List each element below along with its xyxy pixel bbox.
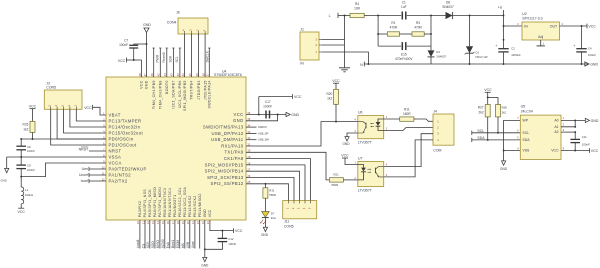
U2 pin names	[524, 25, 558, 40]
svg-text:1k2: 1k2	[23, 127, 28, 131]
svg-text:1N4007: 1N4007	[436, 55, 446, 59]
wire A1	[561, 120, 575, 126]
capacitor E15	[378, 42, 431, 61]
svg-text:Reset0: Reset0	[162, 52, 166, 62]
svg-text:VBAT: VBAT	[109, 112, 121, 117]
ground GND (U5)	[500, 151, 508, 172]
svg-text:GND: GND	[291, 113, 299, 117]
resistor R28	[496, 105, 508, 133]
svg-text:C1: C1	[402, 1, 406, 5]
U7 pin numbers	[354, 161, 387, 180]
svg-text:NRST: NRST	[109, 148, 122, 153]
svg-text:PA2/TX2: PA2/TX2	[109, 178, 128, 183]
eeprom U5 body	[520, 115, 561, 159]
svg-text:I2C1_SDA/PB7: I2C1_SDA/PB7	[172, 80, 176, 108]
wire WP/VSS	[504, 120, 521, 150]
junction C7/VCC	[133, 59, 135, 61]
svg-text:A2: A2	[554, 130, 558, 134]
U2 pin numbers	[517, 22, 563, 46]
U6 transistor	[358, 122, 366, 133]
U6 pin numbers	[354, 115, 387, 133]
net N	[360, 62, 589, 67]
junction top b	[430, 15, 432, 17]
svg-text:1k2: 1k2	[327, 97, 332, 101]
svg-text:U5: U5	[521, 105, 526, 109]
svg-text:SPI2_SCK/PB13: SPI2_SCK/PB13	[207, 175, 244, 180]
svg-text:U5B: U5B	[186, 242, 190, 248]
svg-text:VSS: VSS	[522, 149, 530, 153]
capacitor C11	[570, 132, 590, 150]
svg-text:EnA: EnA	[166, 241, 170, 248]
svg-text:PD1/OSCout: PD1/OSCout	[109, 142, 137, 147]
capacitor C1	[401, 1, 445, 20]
svg-text:GND: GND	[342, 142, 350, 146]
svg-text:VCC: VCC	[118, 59, 126, 63]
MCU bottom pin names	[138, 187, 212, 218]
power VCC (R27/R28)	[484, 88, 498, 105]
svg-text:GND: GND	[201, 263, 209, 267]
svg-text:OUT: OUT	[550, 25, 558, 29]
resistor R20	[326, 89, 338, 121]
svg-text:Icoef: Icoef	[81, 179, 89, 183]
capacitor C2	[495, 16, 521, 65]
svg-text:TRST/PB4: TRST/PB4	[190, 80, 194, 100]
svg-text:PB0/AIN8/T3C3: PB0/AIN8/T3C3	[163, 188, 167, 217]
wire row5	[21, 138, 106, 140]
svg-text:R1: R1	[391, 21, 395, 25]
wire VCC to pin48	[141, 60, 143, 77]
svg-text:PB13/SCK2: PB13/SCK2	[193, 195, 197, 217]
svg-text:SWDIO/TMS/PA13: SWDIO/TMS/PA13	[203, 125, 244, 130]
svg-text:100nF: 100nF	[27, 168, 35, 172]
svg-text:VCC: VCC	[588, 25, 596, 29]
wire U6 to J4 pin2	[384, 128, 433, 131]
svg-text:SDA: SDA	[168, 55, 172, 62]
svg-text:TX1/PA9: TX1/PA9	[224, 150, 243, 155]
svg-text:LTV357T: LTV357T	[358, 189, 373, 193]
junction R3 right	[430, 33, 432, 35]
ground GND (top)	[143, 23, 151, 77]
svg-text:SPX1117-3.3: SPX1117-3.3	[522, 16, 542, 20]
svg-text:VCC: VCC	[332, 79, 340, 83]
svg-text:2k2: 2k2	[478, 111, 483, 115]
svg-text:USB_DP: USB_DP	[258, 131, 269, 135]
wires J6 to U4	[185, 34, 206, 77]
svg-text:NRST: NRST	[79, 147, 89, 151]
wires SPI2 to J11	[246, 159, 311, 201]
svg-text:+: +	[573, 44, 575, 48]
svg-text:PC14/Osc32In: PC14/Osc32In	[109, 124, 141, 129]
power VCC (L1)	[18, 208, 26, 214]
svg-text:PB10/I2C2_SCL: PB10/I2C2_SCL	[178, 187, 182, 217]
wire J4 pin4 to U7	[384, 140, 433, 177]
svg-text:R26: R26	[23, 123, 29, 127]
nets Llen/Ucoef/Icoef	[79, 167, 106, 183]
J6 pin numbers	[182, 29, 207, 31]
svg-text:R4: R4	[355, 2, 359, 6]
svg-text:CON5: CON5	[46, 86, 56, 90]
svg-text:CK1/PA8: CK1/PA8	[224, 156, 244, 161]
MCU right pin names	[203, 112, 244, 186]
wire RX1 to U6	[246, 122, 358, 146]
svg-text:C17: C17	[265, 100, 271, 104]
svg-text:MISO: MISO	[156, 240, 160, 249]
wires J3 to U4	[51, 109, 106, 145]
svg-text:SPI2_SS/PB12: SPI2_SS/PB12	[211, 181, 244, 186]
svg-text:Adj: Adj	[538, 35, 543, 39]
capacitor C17	[263, 100, 272, 119]
junction R20/U6	[335, 121, 337, 123]
regulator U2 body	[522, 22, 560, 40]
svg-text:PB1/AIN9/T3C4: PB1/AIN9/T3C4	[168, 188, 172, 217]
svg-text:LTV357T: LTV357T	[358, 141, 373, 145]
connector J4	[433, 114, 454, 145]
svg-text:L1: L1	[25, 188, 29, 192]
svg-text:R31: R31	[269, 188, 275, 192]
svg-text:R3: R3	[416, 21, 420, 25]
svg-text:470R: 470R	[414, 25, 422, 29]
power VCC (R26)	[29, 104, 37, 121]
diode D1 zener	[465, 16, 488, 65]
svg-text:PC13/TAMPER: PC13/TAMPER	[109, 118, 142, 123]
svg-text:560R: 560R	[332, 183, 339, 187]
svg-text:100nF: 100nF	[263, 104, 272, 108]
MCU bottom pin numbers	[136, 221, 210, 224]
resistor R4	[350, 2, 401, 18]
svg-text:C12: C12	[228, 237, 234, 241]
svg-text:D4: D4	[436, 50, 440, 54]
junction N	[367, 63, 369, 65]
svg-text:D1: D1	[476, 50, 480, 54]
svg-text:C2: C2	[511, 46, 515, 50]
wire J4 pin3 to U7	[384, 134, 433, 167]
wire J1 pin1	[322, 52, 369, 64]
svg-text:Load1: Load1	[136, 239, 140, 248]
svg-text:GND: GND	[591, 119, 599, 123]
svg-text:R27: R27	[478, 106, 484, 110]
svg-text:24LC04: 24LC04	[521, 109, 533, 113]
wire C2 to U2	[504, 25, 523, 27]
diode D8	[442, 1, 503, 20]
junction VSS	[503, 150, 505, 152]
svg-text:U6: U6	[358, 111, 363, 115]
junction D4 bottom	[0, 0, 1, 1]
svg-text:Ucoef: Ucoef	[79, 173, 88, 177]
MCU bottom pin stubs	[140, 220, 200, 249]
resistor R3	[412, 21, 431, 36]
power VCC (bottom)	[234, 228, 243, 233]
ground GND (D7)	[261, 227, 269, 237]
junction C11/VCC	[574, 150, 576, 152]
svg-text:TIM4_CH3/PB8: TIM4_CH3/PB8	[159, 80, 163, 109]
resistor R31	[263, 184, 276, 212]
wire A2	[561, 131, 575, 133]
svg-text:470nF/400V: 470nF/400V	[395, 57, 413, 61]
U2 labels	[522, 12, 542, 20]
svg-text:VCC: VCC	[29, 104, 37, 108]
capacitor C8	[16, 139, 35, 157]
svg-text:PB11/I2C2_SDA: PB11/I2C2_SDA	[183, 187, 187, 218]
junction C7 branch	[146, 43, 148, 45]
svg-text:SN4007: SN4007	[442, 5, 454, 9]
diode D4	[428, 46, 447, 64]
svg-text:R21: R21	[334, 172, 340, 176]
svg-text:C4: C4	[588, 46, 592, 50]
ground GND (A0)	[585, 118, 599, 123]
MCU U4 designator	[214, 69, 242, 77]
svg-text:PA4/SPI1_NSS: PA4/SPI1_NSS	[143, 189, 147, 218]
svg-text:SWCLK: SWCLK	[205, 50, 209, 62]
svg-text:IN: IN	[524, 25, 528, 29]
svg-text:GND: GND	[261, 233, 269, 237]
svg-text:GND: GND	[590, 63, 598, 67]
U6 labels	[358, 111, 373, 145]
wire pin GND bottom	[204, 220, 206, 249]
junction R1 left	[377, 33, 379, 35]
wire J1 pin3	[322, 39, 345, 41]
ground GND (rail)	[585, 62, 599, 67]
svg-text:Boot1: Boot1	[171, 240, 175, 249]
svg-text:GND: GND	[233, 118, 243, 123]
wire U6 emitter GND	[347, 133, 358, 137]
wire A0	[561, 119, 585, 121]
wire pin35	[246, 115, 278, 121]
ground GND (C17)	[286, 112, 300, 117]
svg-text:+: +	[495, 44, 497, 48]
MCU left pin names	[109, 112, 147, 183]
junction R26/row5	[32, 138, 34, 140]
junction C9 top	[20, 156, 22, 158]
U5 labels	[521, 105, 533, 114]
J1 labels	[300, 27, 304, 65]
inductor L1	[21, 177, 33, 209]
svg-text:VCC: VCC	[341, 154, 349, 158]
svg-text:SPI1_MOSI/PB5: SPI1_MOSI/PB5	[183, 80, 187, 111]
svg-text:SCL: SCL	[522, 131, 529, 135]
svg-text:Run: Run	[271, 216, 277, 220]
svg-text:VCC: VCC	[84, 106, 92, 110]
svg-text:PB2/BOOT1: PB2/BOOT1	[173, 195, 177, 218]
junction A2 v	[574, 131, 576, 133]
connector J11	[283, 201, 317, 219]
svg-text:2k2: 2k2	[502, 111, 507, 115]
junction C4 bottom	[581, 63, 583, 65]
wire VSSA row8	[7, 156, 106, 158]
U7 photodiode	[358, 165, 371, 180]
wire U2 out	[560, 25, 588, 27]
svg-text:VCCA: VCCA	[109, 160, 122, 165]
svg-text:SCK: SCK	[146, 241, 150, 248]
junction R28/SCL	[497, 132, 499, 134]
MCU left pin numbers	[102, 111, 105, 181]
optocoupler U6 body	[358, 116, 384, 139]
connector J3	[44, 90, 82, 109]
wire R branch	[378, 16, 431, 47]
wire VCCA row9	[21, 163, 106, 177]
U7 labels	[358, 157, 373, 193]
wire pin VCC bottom	[210, 220, 234, 231]
MCU top pin numbers	[138, 73, 210, 76]
svg-text:TIM4_CH4/PB9: TIM4_CH4/PB9	[152, 80, 156, 109]
svg-text:E00M: E00M	[176, 240, 180, 249]
svg-text:VCC: VCC	[591, 149, 599, 153]
svg-text:SCM0: SCM0	[161, 239, 165, 248]
junction C9/L1	[20, 176, 22, 178]
junction R27/SDA	[487, 139, 489, 141]
svg-text:CON5: CON5	[284, 224, 294, 228]
svg-text:GND: GND	[143, 23, 151, 27]
ground GND (J1)	[339, 68, 350, 72]
net L	[329, 13, 350, 18]
power VCC (U7)	[341, 154, 357, 165]
svg-text:100nF: 100nF	[27, 149, 35, 153]
svg-text:10R: 10R	[354, 6, 361, 10]
svg-text:160R: 160R	[403, 112, 411, 116]
wire J1 pin2	[322, 44, 345, 46]
svg-text:VCC: VCC	[294, 95, 302, 99]
J1 pin numbers	[316, 38, 318, 55]
svg-text:Llen: Llen	[82, 167, 89, 171]
svg-text:GND: GND	[1, 179, 7, 183]
nets SWDIO/USB	[246, 125, 269, 142]
MCU U4 body	[106, 77, 246, 220]
svg-text:CON4: CON4	[167, 20, 177, 24]
capacitor C12	[205, 231, 237, 250]
svg-text:PB12/NSS2: PB12/NSS2	[188, 195, 192, 217]
svg-text:SDA: SDA	[522, 138, 530, 142]
junction D1 bottom	[469, 63, 471, 65]
bottom net labels	[136, 239, 195, 248]
svg-text:USB_DP/PA12: USB_DP/PA12	[211, 131, 243, 136]
svg-text:VCC: VCC	[551, 149, 559, 153]
svg-text:GND: GND	[500, 167, 508, 171]
svg-text:1uF: 1uF	[401, 5, 407, 9]
svg-text:SCL: SCL	[477, 129, 484, 133]
junction GND/C12	[204, 248, 206, 250]
U5 pin names	[522, 119, 559, 153]
J4 labels	[433, 110, 441, 153]
svg-text:+U: +U	[498, 6, 503, 10]
svg-text:VCC: VCC	[140, 80, 144, 89]
LED D7	[260, 211, 276, 227]
net SDA	[472, 136, 521, 142]
J11 labels	[284, 220, 294, 229]
U7 transistor	[376, 167, 384, 177]
optocoupler U7 body	[358, 162, 384, 187]
svg-text:VCC: VCC	[235, 229, 243, 233]
power VCC (U2)	[587, 24, 596, 29]
svg-text:100uF: 100uF	[588, 53, 596, 57]
svg-text:SWDIO: SWDIO	[258, 125, 267, 129]
J3 labels	[46, 81, 56, 89]
svg-text:560R: 560R	[269, 193, 276, 197]
svg-text:100nF: 100nF	[119, 43, 128, 47]
svg-text:VCC: VCC	[18, 210, 26, 214]
resistor R26	[23, 121, 35, 139]
svg-text:PWM: PWM	[155, 54, 159, 62]
svg-text:J1: J1	[300, 27, 304, 31]
wire TX1 to R21	[246, 152, 329, 180]
svg-text:BOOT0: BOOT0	[165, 80, 169, 94]
svg-text:COM: COM	[433, 148, 441, 152]
svg-text:VCC: VCC	[234, 112, 244, 117]
svg-text:J4: J4	[433, 110, 437, 114]
svg-text:GND: GND	[203, 209, 207, 217]
ground GND (U6)	[342, 137, 350, 146]
junction C2 bottom	[503, 63, 505, 65]
junction C12	[221, 230, 223, 232]
junction R31 tap	[264, 183, 266, 185]
svg-text:J11: J11	[284, 220, 289, 224]
junction C17 right	[277, 114, 279, 116]
wire L riser	[344, 16, 346, 68]
svg-text:USB_DM: USB_DM	[258, 138, 269, 142]
J6 labels	[167, 10, 180, 24]
svg-text:PA6/SPI1_MISO: PA6/SPI1_MISO	[153, 187, 157, 217]
svg-text:R20: R20	[326, 92, 332, 96]
svg-text:JTDO/PB3: JTDO/PB3	[197, 80, 201, 100]
svg-text:PA7/SPI1_MOSI: PA7/SPI1_MOSI	[158, 187, 162, 217]
MCU top pin names	[140, 80, 212, 111]
svg-text:IN: IN	[300, 62, 304, 66]
net SCL	[472, 129, 521, 135]
svg-text:470R: 470R	[390, 25, 398, 29]
svg-text:RX1/PA10: RX1/PA10	[221, 143, 244, 148]
wire pin36	[246, 114, 286, 116]
svg-text:J6: J6	[176, 10, 180, 14]
connector J6	[178, 18, 208, 34]
svg-text:PD0/OSCin: PD0/OSCin	[109, 136, 134, 141]
svg-text:PC15/Osc32out: PC15/Osc32out	[109, 130, 144, 135]
power VCC (R20)	[332, 79, 340, 90]
capacitor C7	[119, 39, 146, 60]
svg-text:GND: GND	[145, 80, 149, 89]
svg-text:U2: U2	[522, 12, 527, 16]
svg-text:PA5/SPI1_SCK: PA5/SPI1_SCK	[148, 189, 152, 218]
svg-text:C11: C11	[582, 135, 587, 139]
power VCC (C17)	[259, 94, 302, 114]
connector J1	[300, 32, 322, 60]
U2 adj ground	[537, 40, 545, 46]
junction C8 top	[20, 138, 22, 140]
junction U2 in	[503, 25, 505, 41]
junction VCC tap	[258, 114, 260, 116]
svg-text:SDA: SDA	[477, 136, 485, 140]
svg-text:USB_DM/PA11: USB_DM/PA11	[211, 137, 244, 142]
svg-text:E15: E15	[401, 52, 407, 56]
svg-text:STM32F103C8T6: STM32F103C8T6	[214, 73, 242, 77]
svg-text:InB: InB	[181, 243, 185, 248]
resistor R21	[329, 172, 357, 187]
svg-text:D7: D7	[271, 211, 275, 215]
capacitor C4	[573, 26, 596, 64]
svg-text:SPI2_MISO/PB14: SPI2_MISO/PB14	[205, 169, 244, 174]
power VCC (U5)	[590, 148, 599, 153]
svg-text:100nF: 100nF	[582, 142, 590, 146]
junction A1/A2	[574, 126, 576, 128]
svg-text:U7: U7	[358, 157, 363, 161]
junction top a	[377, 15, 379, 17]
net +U	[498, 6, 504, 16]
svg-text:PA0/TED2/WKUP: PA0/TED2/WKUP	[109, 166, 147, 171]
svg-text:VCC: VCC	[208, 209, 212, 217]
wire U5 VCC	[561, 150, 590, 152]
resistor R27	[478, 105, 490, 140]
power VCC (C7)	[118, 58, 142, 63]
svg-text:VCC: VCC	[484, 88, 492, 92]
resistor R1	[378, 21, 412, 36]
J11 pin numbers	[286, 207, 312, 209]
